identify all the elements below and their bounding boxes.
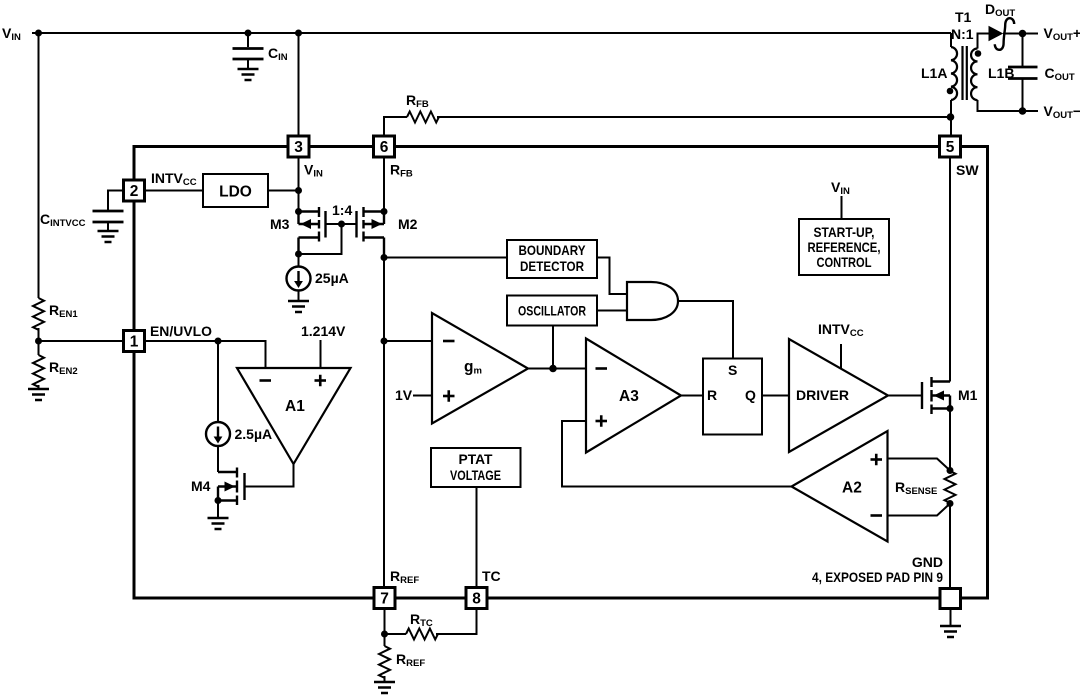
wire M4 source to ground [217,501,219,519]
node RTC / RREF junction [381,631,388,638]
wire LDO output to VIN line [268,190,299,192]
gm minus sign [443,340,455,343]
node M2 drain junction [381,254,388,261]
amp A2 [792,431,888,542]
svg-text:S: S [728,362,737,378]
A1 plus sign [315,375,327,387]
svg-text:TC: TC [482,568,501,584]
wire A3 output to latch R [681,395,703,397]
wire CIN stub [247,33,249,47]
block START-UP REFERENCE CONTROL [799,219,889,275]
svg-text:25µA: 25µA [315,270,349,286]
node gm output / oscillator [549,365,557,373]
wire 1.214V to A1 plus [320,340,322,368]
diode DOUT [989,26,1004,42]
svg-text:START-UP,: START-UP, [814,224,875,240]
node VIN rail / REN divider tap [35,30,42,37]
A1 minus sign [260,379,272,382]
wire pin1 to A1 minus input [144,341,266,368]
block OSCILLATOR [507,296,597,326]
wire RSENSE to GND pad [949,504,951,590]
capacitor CINTVCC [93,210,124,213]
wire PTAT to pin 8 [476,487,478,588]
wire pin3 down to M3 [298,156,300,212]
wire A2 minus to RSENSE bottom [888,504,951,516]
svg-text:DETECTOR: DETECTOR [520,258,584,274]
GND exposed pad [940,589,961,609]
block PTAT VOLTAGE [431,448,521,487]
AND gate [627,282,678,320]
wire gate tie M3-M2 [326,223,357,225]
svg-text:7: 7 [380,591,389,608]
node VOUT+ / COUT [1019,30,1027,38]
svg-text:A1: A1 [285,398,305,415]
node 2.5uA tap [215,338,222,345]
polarity dot L1B [975,50,982,57]
node M4 source [215,497,222,504]
pin 1 [124,331,145,352]
wire M4 gate to A1 output [245,464,294,487]
ground CIN [238,69,259,80]
wire to gm minus input [384,340,432,342]
node M2 source junction [381,208,388,215]
wire secondary bottom to VOUT- [978,100,1039,111]
svg-text:M3: M3 [270,216,290,232]
wire M2 drain to boundary detector [384,257,507,259]
svg-text:M2: M2 [398,216,418,232]
svg-text:DRIVER: DRIVER [796,387,849,403]
wire INTVCC to driver [840,344,842,369]
ground exposed pad [940,626,961,637]
svg-text:8: 8 [472,591,481,608]
svg-text:A2: A2 [842,480,862,497]
transformer core [961,46,963,100]
wire RTC to pin 8 [436,608,477,634]
wire RREF net (M2 drain down to pin 7) [383,258,385,589]
svg-text:L1A: L1A [921,65,947,81]
svg-text:M4: M4 [191,478,211,494]
wire driver to M1 gate [888,395,922,397]
wire RFB to SW node [437,116,951,118]
transistor M4 (NMOS) [218,468,245,506]
wire A2 plus to RSENSE top [888,459,951,471]
svg-text:OSCILLATOR: OSCILLATOR [518,303,586,319]
svg-text:4, EXPOSED PAD PIN 9: 4, EXPOSED PAD PIN 9 [812,569,943,585]
wire pin2 to LDO [144,190,203,192]
wire VIN rail down to REN1 [38,33,40,298]
pin 3 [288,136,309,157]
ground CINTVCC [98,231,119,242]
node RSENSE bottom [947,500,954,507]
A2 plus sign [871,454,883,466]
svg-text:N:1: N:1 [951,26,974,42]
node M3 drain / 25uA [295,251,302,258]
pin 2 [124,180,145,201]
polarity dot L1A [947,88,954,95]
wire node to RTC [385,633,407,635]
wire 1V to gm plus [413,395,432,397]
svg-text:M1: M1 [958,387,978,403]
svg-text:1.214V: 1.214V [301,323,346,339]
pin 5 [940,136,961,157]
wire pin7 to RTC node [384,608,386,634]
svg-text:SW: SW [956,162,979,178]
svg-text:LDO: LDO [219,184,252,201]
svg-text:R: R [707,387,717,403]
wire COUT top [1022,34,1024,68]
svg-text:1:4: 1:4 [332,202,352,218]
wire boundary detector to AND [597,258,627,295]
block BOUNDARY DETECTOR [507,240,597,278]
resistor REN2 [33,355,44,387]
node M3 source junction [295,208,302,215]
node gm minus tap [381,338,388,345]
wire A2 output to A3 plus [562,421,792,487]
svg-text:6: 6 [380,139,389,156]
wire M1 source to RSENSE [949,409,951,471]
node CIN junction [245,30,252,37]
wire 25uA to ground [298,291,300,302]
resistor RREF (external) [379,646,390,678]
wire pin6 down to M2 [383,156,385,212]
svg-text:VOLTAGE: VOLTAGE [450,467,501,483]
wire pin2 to CINTVCC [108,191,124,212]
node VOUT- [1019,107,1027,115]
op-amp A3 [586,339,681,453]
svg-text:Q: Q [745,387,756,403]
resistor REN1 [33,298,44,330]
node pin3 feed junction [295,30,302,37]
svg-text:PTAT: PTAT [459,451,493,467]
wire oscillator to gm output [552,326,554,369]
chip outline [134,147,988,599]
pin 8 [466,588,487,609]
op-amp gm [432,313,528,424]
transistor M3 (PMOS) [299,207,326,254]
current source 2.5uA [217,341,219,422]
node M1 source [947,405,954,412]
pin 6 [374,136,395,157]
ground M4 [208,518,229,529]
wire VIN rail corner into primary [950,33,952,47]
svg-text:1: 1 [130,334,139,351]
node SW / RFB junction [947,113,955,121]
resistor RSENSE [945,471,956,503]
op-amp A1 [237,368,351,464]
wire pin5 down to M1 drain [949,156,951,382]
svg-text:2.5µA: 2.5µA [235,426,273,442]
wire latch Q to driver [762,395,789,397]
svg-text:EN/UVLO: EN/UVLO [150,323,212,339]
ground REN2 [28,389,49,400]
svg-text:BOUNDARY: BOUNDARY [519,242,587,258]
wire diode to VOUT+ [1003,33,1038,35]
wire pad to ground [950,609,952,627]
resistor RTC [406,629,438,640]
node EN divider tap [35,338,42,345]
ground RREF [374,682,395,693]
A3 minus sign [596,367,608,370]
inductor L1B secondary winding [971,49,977,101]
wire 2.5uA to M4 drain [217,447,219,473]
wire RREF to ground [384,634,386,646]
wire tap to pin 1 [39,340,125,342]
wire VIN to startup block [841,196,843,219]
wire REN1 to node [38,328,40,355]
svg-text:A3: A3 [619,388,639,405]
svg-text:1V: 1V [395,387,413,403]
svg-text:2: 2 [130,183,139,200]
capacitor COUT [1008,66,1038,69]
pin 7 [374,588,395,609]
wire oscillator to AND [597,310,627,312]
wire AND output to latch S [678,301,733,359]
svg-text:5: 5 [946,139,955,156]
A3 plus sign [596,415,608,427]
svg-text:GND: GND [912,554,943,570]
block LDO [203,174,268,207]
wire secondary top to diode [978,34,989,49]
wire pin6 to RFB resistor [384,117,407,137]
wire gate tie to M3 drain [299,224,342,254]
wire COUT bottom [1022,79,1024,112]
wire down to pin 3 [298,33,300,137]
wire REN2 to ground [38,385,40,389]
wire VIN top rail [32,32,951,34]
svg-text:3: 3 [294,139,303,156]
wire gm output to A3 minus [528,368,586,370]
transistor M2 (PMOS) [357,207,385,258]
inductor L1A primary winding [951,47,957,100]
wire primary bottom to pin 5 [950,100,952,137]
ground 25uA [288,301,309,312]
transistor M1 (NMOS) [922,377,950,414]
current source 25uA [298,254,300,267]
capacitor CIN [233,47,264,50]
svg-text:CONTROL: CONTROL [817,254,872,270]
node LDO/VIN junction [295,187,302,194]
svg-text:REFERENCE,: REFERENCE, [808,239,881,255]
A2 minus sign [871,514,883,517]
gm plus sign [443,390,455,402]
node RSENSE top [947,467,954,474]
block SR latch [703,359,762,435]
resistor RFB (top) [407,112,439,123]
node gate tie [338,221,345,228]
amp DRIVER [789,339,888,452]
svg-text:T1: T1 [955,9,972,25]
